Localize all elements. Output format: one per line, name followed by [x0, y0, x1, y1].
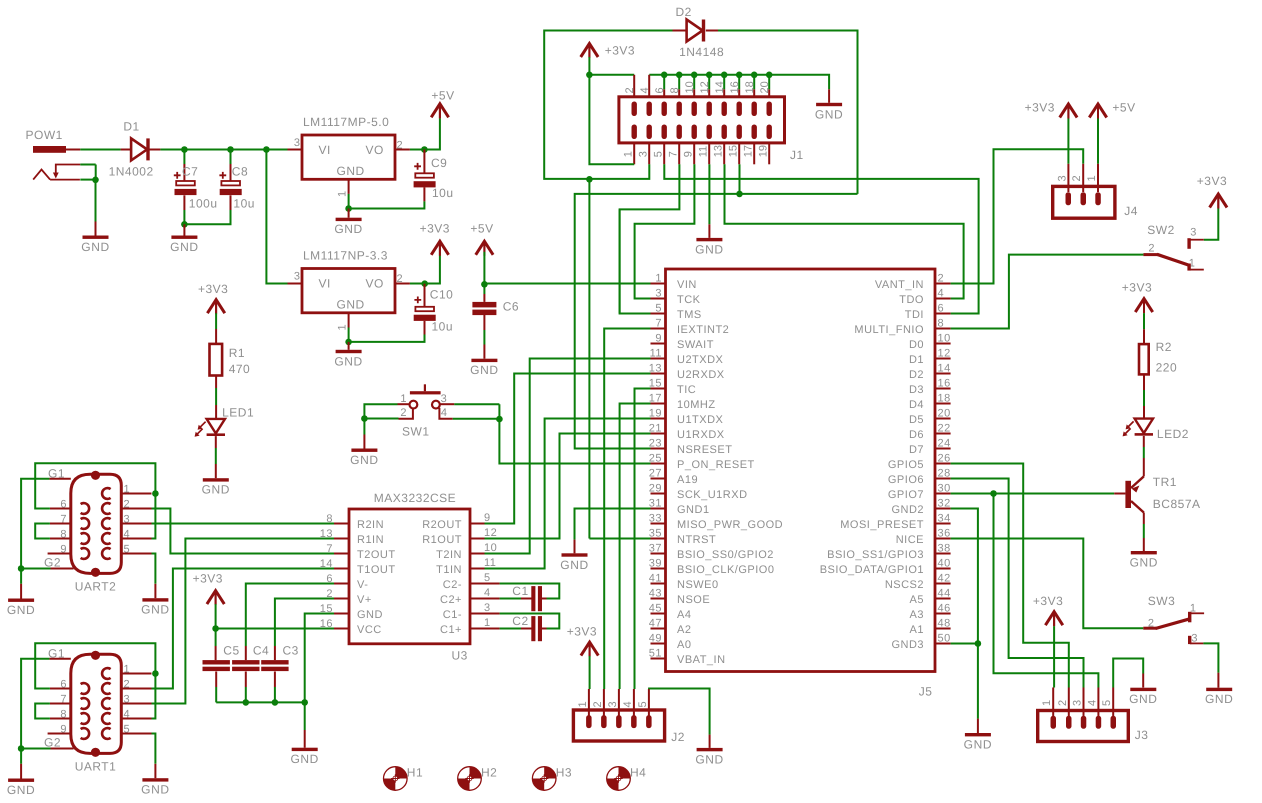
svg-text:GND: GND: [81, 240, 109, 254]
svg-text:4: 4: [622, 701, 634, 708]
svg-text:R1IN: R1IN: [357, 534, 384, 546]
ground LED1: [202, 478, 230, 497]
svg-text:+5V: +5V: [470, 221, 493, 235]
junction J1 pin 8: [676, 72, 683, 79]
switch SW3: [1143, 594, 1204, 645]
junction J1 pin 20: [766, 72, 773, 79]
svg-text:2: 2: [1057, 699, 1069, 706]
svg-text:32: 32: [938, 498, 951, 510]
svg-text:26: 26: [938, 453, 951, 465]
svg-text:35: 35: [649, 528, 662, 540]
svg-text:34: 34: [938, 513, 951, 525]
wire UART1.2 to T1OUT: [152, 569, 335, 689]
svg-text:5: 5: [124, 724, 131, 736]
regulator U LM1117MP-5.0: [288, 115, 410, 197]
wire UART1 pins 1-4-6 tie: [35, 643, 155, 718]
connector UART1: [44, 647, 152, 774]
svg-text:6: 6: [938, 303, 945, 315]
svg-text:SCK_U1RXD: SCK_U1RXD: [677, 489, 748, 501]
wire UART1.3 to R1IN: [152, 539, 335, 704]
svg-text:4: 4: [484, 587, 491, 599]
svg-text:A2: A2: [677, 624, 691, 636]
svg-text:D2: D2: [909, 369, 924, 381]
svg-text:15: 15: [649, 378, 662, 390]
svg-text:3: 3: [294, 137, 301, 149]
wire GND3 stub: [951, 643, 978, 645]
svg-text:NSWE0: NSWE0: [677, 579, 719, 591]
svg-text:U2TXDX: U2TXDX: [677, 354, 724, 366]
svg-text:C3: C3: [283, 644, 299, 658]
svg-text:1: 1: [337, 190, 349, 197]
IC module J5: [649, 269, 951, 698]
svg-text:C1: C1: [512, 584, 528, 598]
svg-text:VCC: VCC: [357, 624, 382, 636]
svg-text:+5V: +5V: [1112, 101, 1135, 115]
svg-text:17: 17: [649, 393, 662, 405]
junction J1 pin 16: [736, 72, 743, 79]
svg-text:J2: J2: [671, 730, 685, 744]
junction J1 pin 6: [661, 72, 668, 79]
svg-text:D0: D0: [909, 339, 924, 351]
wire D1 to regulators: [149, 149, 160, 151]
wire +3V3 to J2.1: [589, 643, 591, 656]
power +3V3 arrow at J2: [567, 625, 599, 657]
svg-text:A0: A0: [677, 639, 691, 651]
svg-text:2: 2: [592, 701, 604, 708]
svg-text:33: 33: [649, 513, 662, 525]
svg-text:GND: GND: [141, 603, 169, 617]
wire UART2.2 to T2OUT: [152, 509, 335, 554]
wire UART2 shield: [21, 479, 50, 569]
ground C6: [470, 359, 498, 378]
wire GPIO6 to J3.3: [951, 479, 1084, 688]
wire J3.5 gnd: [1113, 659, 1143, 688]
svg-text:100u: 100u: [189, 197, 218, 211]
wire D2 left loop: [544, 31, 672, 179]
junction C4 gnd: [243, 699, 250, 706]
svg-text:7: 7: [655, 318, 662, 330]
wire LED2 to TR1: [1143, 436, 1145, 447]
svg-text:SWAIT: SWAIT: [677, 339, 714, 351]
svg-text:4: 4: [124, 529, 131, 541]
svg-text:2: 2: [1071, 175, 1083, 182]
svg-text:7: 7: [667, 151, 679, 157]
svg-text:D5: D5: [909, 414, 924, 426]
svg-text:MAX3232CSE: MAX3232CSE: [374, 491, 456, 505]
svg-text:A19: A19: [677, 474, 698, 486]
svg-text:MISO_PWR_GOOD: MISO_PWR_GOOD: [677, 519, 783, 531]
svg-text:+3V3: +3V3: [1197, 174, 1227, 188]
svg-text:GND: GND: [7, 783, 35, 797]
svg-text:+3V3: +3V3: [193, 571, 223, 585]
wire cap gnd bus: [215, 672, 217, 688]
svg-text:UART1: UART1: [75, 760, 117, 774]
ground J2.5: [695, 748, 723, 767]
svg-text:39: 39: [649, 558, 662, 570]
wire SW2.2 to MULTI_FNIO: [951, 255, 1144, 329]
svg-text:51: 51: [649, 648, 662, 660]
svg-text:R2: R2: [1156, 340, 1172, 354]
connector J2: [573, 689, 684, 744]
svg-text:10u: 10u: [432, 320, 454, 334]
svg-text:A5: A5: [910, 594, 924, 606]
wire GND2 GND3 to gnd: [951, 509, 978, 719]
svg-text:2: 2: [400, 407, 407, 419]
svg-text:C1-: C1-: [443, 609, 462, 621]
svg-text:47: 47: [649, 618, 662, 630]
svg-text:GND2: GND2: [891, 504, 924, 516]
capacitor C4: [232, 644, 269, 672]
junction C8: [227, 146, 234, 153]
switch SW2: [1143, 223, 1203, 271]
svg-text:GND: GND: [695, 752, 723, 766]
svg-text:GND1: GND1: [677, 504, 710, 516]
wire C1- wrap: [485, 613, 500, 615]
svg-text:4: 4: [124, 709, 131, 721]
wire +V input net: [80, 149, 120, 151]
svg-text:18: 18: [938, 393, 951, 405]
svg-text:D1: D1: [909, 354, 924, 366]
power +5V arrow at LM5: [431, 89, 454, 119]
svg-text:NTRST: NTRST: [677, 534, 716, 546]
svg-text:9: 9: [682, 151, 694, 157]
junction C7 gnd: [181, 221, 188, 228]
wire GPIO5 to J3.2: [951, 464, 1069, 688]
svg-text:13: 13: [320, 528, 333, 540]
svg-text:1: 1: [1086, 175, 1098, 182]
wire D2 right loop: [706, 30, 718, 32]
ground TR1: [1130, 551, 1158, 570]
svg-text:42: 42: [938, 573, 951, 585]
ground J3.5: [1129, 688, 1157, 707]
svg-text:GND: GND: [334, 222, 362, 236]
power +3V3 arrow at U3: [193, 571, 225, 605]
svg-text:T2OUT: T2OUT: [357, 549, 396, 561]
svg-text:1: 1: [337, 324, 349, 331]
svg-text:10: 10: [684, 81, 696, 93]
svg-text:23: 23: [649, 438, 662, 450]
svg-text:12: 12: [484, 527, 497, 539]
svg-text:TR1: TR1: [1153, 475, 1177, 489]
junction C3 gnd: [272, 699, 279, 706]
svg-text:TIC: TIC: [677, 384, 696, 396]
wire 10MHZ to J2.3: [620, 404, 651, 690]
power +3V3 arrow at J3: [1033, 594, 1063, 626]
LED LED2: [1123, 419, 1189, 441]
junction LM3.3 gnd: [345, 339, 352, 346]
svg-text:31: 31: [649, 498, 662, 510]
junction J1 pin 12: [706, 72, 713, 79]
wire LM5 gnd: [348, 194, 350, 209]
wire POW1 to GND: [80, 179, 95, 181]
power +3V3 arrow at J4: [1025, 101, 1078, 119]
ground J1 top bus: [815, 103, 843, 122]
svg-text:3: 3: [1056, 175, 1068, 182]
svg-text:5: 5: [655, 303, 662, 315]
svg-text:POW1: POW1: [26, 128, 63, 142]
connector POW1: [26, 128, 96, 180]
junction TRST: [586, 176, 593, 183]
svg-text:UART2: UART2: [75, 580, 117, 594]
wire VANT_IN to J4.2: [951, 149, 1084, 283]
svg-text:3: 3: [441, 393, 448, 405]
svg-text:V+: V+: [357, 594, 372, 606]
wire SW1 gnd: [363, 419, 365, 435]
svg-text:8: 8: [938, 318, 945, 330]
ground GND1: [560, 553, 588, 572]
svg-text:8: 8: [669, 87, 681, 93]
svg-text:19: 19: [649, 408, 662, 420]
svg-text:C9: C9: [431, 156, 447, 170]
wire J1.3 TRST net: [589, 164, 649, 538]
junction SRST: [736, 191, 743, 198]
svg-text:BSIO_DATA/GPIO1: BSIO_DATA/GPIO1: [820, 564, 924, 576]
svg-text:4: 4: [441, 407, 448, 419]
svg-text:19: 19: [757, 145, 769, 157]
junction POW1 gnd: [92, 177, 99, 184]
svg-text:VO: VO: [366, 143, 384, 157]
svg-text:9: 9: [484, 512, 491, 524]
wire GND1: [575, 509, 651, 540]
capacitor C3: [261, 644, 299, 672]
svg-text:C5: C5: [223, 644, 239, 658]
svg-text:VIN: VIN: [677, 279, 697, 291]
svg-text:U1TXDX: U1TXDX: [677, 414, 724, 426]
svg-text:12: 12: [938, 348, 951, 360]
svg-text:GPIO7: GPIO7: [888, 489, 924, 501]
svg-text:2: 2: [124, 679, 131, 691]
svg-text:1: 1: [577, 701, 589, 708]
hole H4: [607, 765, 647, 790]
power +3V3 arrow at J1: [581, 44, 635, 59]
connector J1: [619, 72, 804, 165]
svg-text:3: 3: [1072, 699, 1084, 706]
svg-text:SW2: SW2: [1147, 223, 1175, 237]
svg-text:A3: A3: [910, 609, 924, 621]
ground C7/C8: [170, 236, 198, 255]
wire C8 bottom to gnd: [184, 210, 230, 224]
wire branch input to LM3.3: [266, 150, 287, 284]
svg-text:50: 50: [938, 633, 951, 645]
svg-text:GND: GND: [141, 783, 169, 797]
power +3V3 arrow at R2: [1122, 280, 1153, 313]
svg-text:22: 22: [938, 423, 951, 435]
svg-text:1N4148: 1N4148: [679, 45, 724, 59]
svg-text:GND: GND: [1129, 692, 1157, 706]
svg-text:6: 6: [60, 679, 67, 691]
junction J1 +3V3: [586, 72, 593, 79]
svg-text:13: 13: [649, 363, 662, 375]
ground UART1 shield: [7, 779, 35, 798]
wire UART1 pins 7-8 tie: [35, 704, 50, 719]
svg-text:28: 28: [938, 468, 951, 480]
junction LM5 gnd: [345, 205, 352, 212]
svg-text:3: 3: [637, 151, 649, 157]
diode D2: [676, 5, 725, 59]
wire J1 +3V3 bus pins 2-4: [589, 74, 634, 76]
svg-text:GND: GND: [964, 738, 992, 752]
wire P_ON_RESET to SW1: [499, 404, 650, 463]
junction cap bus gnd: [301, 699, 308, 706]
capacitor C5: [203, 644, 240, 672]
svg-text:G1: G1: [48, 467, 65, 481]
wire C1+ to C2: [485, 628, 500, 630]
svg-text:D7: D7: [909, 444, 924, 456]
capacitor C6: [472, 300, 519, 359]
svg-text:4: 4: [1086, 699, 1098, 706]
svg-text:H4: H4: [630, 765, 646, 779]
svg-text:C8: C8: [232, 165, 248, 179]
wire TIC to J2.4: [635, 389, 651, 690]
junction UART1 pin1: [152, 670, 159, 677]
svg-text:U3: U3: [452, 648, 468, 662]
svg-text:LM1117MP-5.0: LM1117MP-5.0: [303, 115, 389, 129]
svg-text:2: 2: [624, 87, 636, 93]
svg-text:8: 8: [326, 513, 333, 525]
wire VO 5V: [410, 118, 440, 149]
svg-text:1: 1: [622, 151, 634, 157]
junction C9: [421, 146, 428, 153]
wire J1.7 to J2.2: [620, 164, 680, 313]
svg-text:NSRESET: NSRESET: [677, 444, 732, 456]
svg-text:H3: H3: [556, 765, 572, 779]
ground SW1: [350, 449, 378, 468]
svg-text:14: 14: [714, 81, 726, 93]
svg-text:1: 1: [655, 273, 662, 285]
svg-text:10: 10: [484, 542, 497, 554]
svg-text:H1: H1: [407, 765, 423, 779]
svg-text:+3V3: +3V3: [1122, 280, 1152, 294]
svg-text:1: 1: [400, 393, 407, 405]
wire J1 gnd bus pins 4-20: [649, 75, 829, 90]
svg-text:VI: VI: [319, 277, 331, 291]
svg-text:10: 10: [938, 333, 951, 345]
junction J1 pin 10: [691, 72, 698, 79]
svg-text:1: 1: [484, 617, 491, 629]
svg-text:GND: GND: [290, 752, 318, 766]
wire +3V3 to SW2.3: [1217, 195, 1219, 209]
svg-text:GND: GND: [470, 363, 498, 377]
wire C7 gnd lead: [183, 224, 185, 235]
wire J1.11 to gnd: [708, 164, 710, 224]
svg-text:GND: GND: [357, 609, 383, 621]
svg-text:24: 24: [938, 438, 951, 450]
svg-text:MOSI_PRESET: MOSI_PRESET: [840, 519, 924, 531]
svg-text:C2-: C2-: [443, 579, 462, 591]
junction C10: [421, 280, 428, 287]
ground caps: [290, 748, 318, 767]
svg-text:8: 8: [60, 529, 67, 541]
svg-text:P_ON_RESET: P_ON_RESET: [677, 459, 755, 471]
ground UART2 shield: [7, 599, 35, 618]
svg-text:D6: D6: [909, 429, 924, 441]
svg-text:BSIO_SS1/GPIO3: BSIO_SS1/GPIO3: [827, 549, 924, 561]
svg-text:GND: GND: [815, 107, 843, 121]
connector J3: [1038, 688, 1149, 743]
svg-text:470: 470: [229, 362, 251, 376]
svg-text:5: 5: [652, 151, 664, 157]
power +3V3 arrow at LM3.3: [420, 221, 450, 255]
connector J4: [1053, 175, 1138, 218]
wire U1TXDX to T1IN: [484, 419, 651, 569]
svg-text:NSCS2: NSCS2: [885, 579, 924, 591]
svg-text:LED2: LED2: [1157, 427, 1189, 441]
svg-text:VI: VI: [319, 143, 331, 157]
capacitor C9: [349, 150, 454, 209]
wire SW1.3: [454, 403, 499, 405]
svg-text:9: 9: [655, 333, 662, 345]
svg-text:V-: V-: [357, 579, 368, 591]
svg-text:J1: J1: [790, 148, 804, 162]
svg-text:38: 38: [938, 543, 951, 555]
junction GND3: [975, 640, 982, 647]
wire +3V3 to VCC: [215, 592, 217, 605]
svg-text:BSIO_CLK/GPIO0: BSIO_CLK/GPIO0: [677, 564, 774, 576]
switch SW1: [398, 384, 455, 438]
svg-text:8: 8: [60, 709, 67, 721]
wire +5V to J5 VIN: [484, 283, 650, 285]
svg-text:C1+: C1+: [440, 624, 462, 636]
svg-text:C2: C2: [512, 614, 528, 628]
svg-text:D2: D2: [676, 5, 692, 19]
svg-text:2: 2: [938, 273, 945, 285]
wire TR1 emitter gnd: [1143, 513, 1145, 525]
svg-text:7: 7: [60, 514, 67, 526]
svg-text:IEXTINT2: IEXTINT2: [677, 324, 729, 336]
svg-text:5: 5: [637, 701, 649, 708]
svg-text:GND3: GND3: [891, 639, 924, 651]
wire GND to cap bus: [305, 614, 334, 703]
svg-text:D3: D3: [909, 384, 924, 396]
svg-text:R2IN: R2IN: [357, 519, 384, 531]
svg-text:R1OUT: R1OUT: [422, 534, 462, 546]
svg-text:29: 29: [649, 483, 662, 495]
ground UART1 pin5: [141, 778, 169, 797]
svg-text:18: 18: [744, 81, 756, 93]
svg-text:15: 15: [727, 145, 739, 157]
ground GND2/GND3: [964, 733, 992, 752]
svg-text:J5: J5: [919, 684, 933, 698]
svg-text:GND: GND: [695, 242, 723, 256]
wire J1.5 to TDI: [664, 164, 978, 313]
junction UART2 shield: [18, 565, 25, 572]
ground J1.11: [695, 238, 723, 257]
svg-text:NSOE: NSOE: [677, 594, 710, 606]
junction SW1 right: [496, 416, 503, 423]
junction VCC: [212, 625, 219, 632]
svg-text:A1: A1: [910, 624, 924, 636]
junction J1 pin 14: [721, 72, 728, 79]
wire UART1 pin5 gnd: [152, 734, 156, 764]
hole H2: [458, 765, 498, 790]
svg-text:G1: G1: [48, 647, 65, 661]
svg-text:C6: C6: [503, 300, 519, 314]
svg-text:12: 12: [699, 81, 711, 93]
svg-text:5: 5: [124, 544, 131, 556]
svg-text:R1: R1: [229, 346, 245, 360]
svg-text:40: 40: [938, 558, 951, 570]
svg-text:+3V3: +3V3: [1033, 594, 1063, 608]
svg-text:GND: GND: [337, 164, 365, 178]
wire UART2 pins 1-4-6 tie: [35, 463, 155, 538]
hole H3: [532, 765, 572, 790]
wire SW1.1: [364, 404, 397, 418]
svg-text:BSIO_SS0/GPIO2: BSIO_SS0/GPIO2: [677, 549, 774, 561]
svg-text:+3V3: +3V3: [567, 625, 597, 639]
svg-text:J4: J4: [1124, 204, 1138, 218]
svg-text:GND: GND: [7, 603, 35, 617]
svg-text:U2RXDX: U2RXDX: [677, 369, 725, 381]
